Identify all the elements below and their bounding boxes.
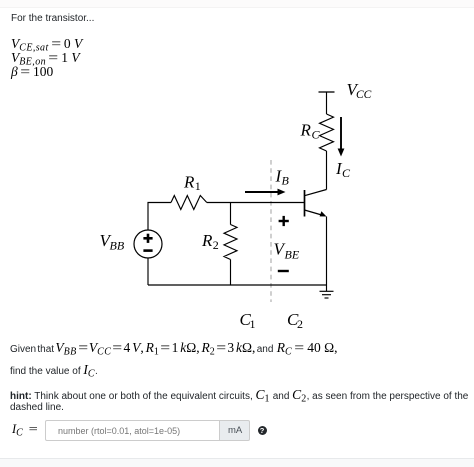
- transistor Q1 emitter lead with arrow: [305, 210, 327, 217]
- emitter wire down: [326, 217, 328, 286]
- resistor RC: [320, 114, 334, 151]
- svg-text:R: R: [183, 173, 195, 192]
- VBB minus sign: [143, 249, 152, 252]
- dashed cut line between C1 and C2: [270, 160, 272, 302]
- hint paragraph: [10, 388, 468, 406]
- svg-text:2: 2: [297, 317, 303, 331]
- current arrow IB: [245, 189, 286, 196]
- label VBE: [274, 240, 300, 262]
- given-that paragraph: [10, 341, 338, 359]
- top light strip: [0, 0, 474, 8]
- svg-text:2: 2: [213, 238, 219, 252]
- VBE minus sign: [278, 270, 289, 272]
- VBB plus sign: [143, 234, 152, 243]
- equation beta: [11, 65, 53, 78]
- resistor R2: [224, 225, 237, 260]
- wire R2 top: [230, 203, 232, 225]
- label IC: [335, 159, 351, 180]
- wire VCC to RC: [326, 92, 328, 114]
- svg-text:CC: CC: [356, 89, 372, 101]
- resistor R1: [171, 196, 207, 210]
- equation V_CE,sat: [11, 37, 82, 55]
- label R2: [201, 231, 219, 252]
- label VBB: [100, 231, 125, 253]
- label IC =: [12, 423, 37, 440]
- base wire R1 to transistor: [207, 202, 305, 204]
- ground symbol: [320, 285, 334, 298]
- svg-text:B: B: [282, 174, 290, 188]
- svg-text:R: R: [300, 121, 312, 140]
- unit suffix mA: [220, 420, 250, 441]
- wire VBB bottom: [147, 258, 149, 285]
- current arrow IC: [338, 117, 345, 157]
- label IB: [275, 167, 290, 188]
- label C1: [240, 310, 256, 331]
- voltage source VBB: [134, 230, 162, 258]
- intro text: [11, 12, 94, 25]
- bottom rail wire: [148, 284, 327, 286]
- wire left vertical top (VBB to R1): [148, 203, 171, 231]
- svg-text:R: R: [201, 231, 213, 250]
- svg-text:BB: BB: [110, 239, 125, 253]
- equation V_BE,on: [11, 51, 80, 69]
- svg-text:C: C: [342, 166, 351, 180]
- VBE plus sign: [279, 216, 289, 226]
- svg-text:C: C: [312, 128, 321, 142]
- label VCC: [347, 80, 372, 101]
- number input box: [45, 420, 220, 441]
- svg-text:1: 1: [250, 317, 256, 331]
- label C2: [287, 310, 303, 331]
- transistor Q1 base bar: [304, 190, 306, 217]
- svg-text:1: 1: [195, 179, 201, 193]
- transistor Q1 (NPN) collector lead: [305, 190, 327, 196]
- label RC: [300, 121, 321, 142]
- footer panel: [0, 458, 474, 467]
- label R1: [183, 173, 201, 194]
- wire RC to collector: [326, 151, 328, 190]
- find-the-value line: [10, 363, 98, 381]
- svg-text:BE: BE: [285, 247, 300, 261]
- VCC supply bar: [319, 91, 335, 93]
- help question icon: [258, 426, 267, 435]
- wire R2 bottom: [230, 260, 232, 286]
